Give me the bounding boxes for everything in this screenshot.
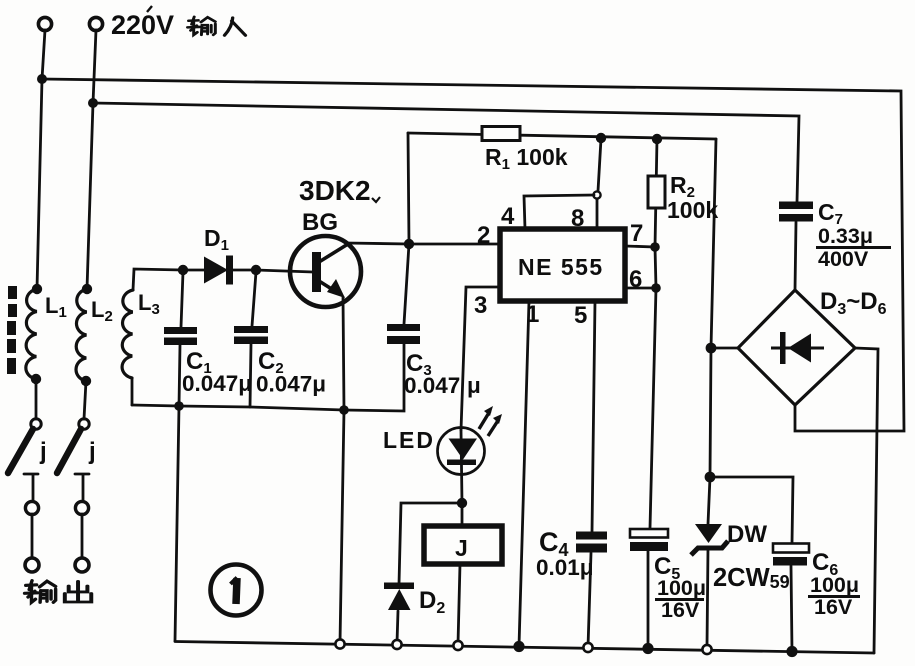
svg-text:D3~D6: D3~D6 <box>820 288 887 318</box>
svg-text:1: 1 <box>526 301 539 328</box>
R1 supply rail <box>408 133 716 139</box>
svg-text:DW: DW <box>727 521 767 548</box>
svg-text:100μ: 100μ <box>657 576 706 600</box>
wire bridge right vertex down to rail <box>855 348 878 653</box>
IC U1 NE555 <box>500 229 625 301</box>
node circle pin4/8 <box>593 191 600 198</box>
junction dot L1 top <box>32 284 42 294</box>
terminal T1 220V input left <box>38 17 51 30</box>
svg-text:100μ: 100μ <box>810 573 859 597</box>
capacitor C2 <box>234 326 268 344</box>
fraction bar C7 <box>816 246 891 249</box>
wire rail 1 AC line to bridge bottom <box>42 79 904 431</box>
switch j1 lower contact circle <box>25 501 38 514</box>
inductor L2 <box>76 289 87 381</box>
wire +V down right side <box>710 139 716 477</box>
svg-text:16V: 16V <box>661 598 700 622</box>
wire emitter down to bus <box>343 297 344 410</box>
svg-text:16V: 16V <box>814 595 853 619</box>
junction dot pin7/R2 <box>650 242 660 252</box>
svg-text:6: 6 <box>629 266 642 293</box>
diode D1 <box>188 256 251 285</box>
rail open circle D2 <box>392 640 401 649</box>
rail dot C6 <box>786 646 797 657</box>
svg-text:NE 555: NE 555 <box>518 254 604 280</box>
wire node A to C1 <box>181 272 183 327</box>
wire C6 to rail <box>791 566 792 651</box>
switch j1 pivot <box>31 419 41 429</box>
wire to output terminal 1 <box>31 514 34 558</box>
junction dot L2 bottom <box>81 376 91 386</box>
wire node C up to R1 rail <box>408 133 409 244</box>
resistor R2 <box>648 176 665 208</box>
switch j1 blade <box>8 429 33 473</box>
wire L3 top to node A <box>133 269 183 290</box>
wire pin 3 to LED <box>461 287 500 430</box>
svg-text:BG: BG <box>302 209 338 236</box>
bottom common rail <box>175 642 874 654</box>
wire stub to bridge left vertex <box>711 347 738 350</box>
ground bus wire (bottom of oscillator) <box>132 344 404 411</box>
wire junction to relay <box>461 505 464 526</box>
wire pin 6 stub <box>625 287 656 290</box>
switch j2 blade <box>57 429 81 473</box>
wire C4 to rail <box>588 553 591 647</box>
svg-text:7: 7 <box>630 220 643 247</box>
svg-text:LED: LED <box>383 427 435 453</box>
scan tick above V <box>147 6 152 12</box>
junction dot LED/relay/D2 <box>457 498 467 508</box>
transistor BG circle <box>290 236 361 307</box>
label 输入 <box>188 17 246 36</box>
wire pin 7 stub <box>625 246 655 247</box>
LED bar <box>447 460 476 466</box>
label 输出 <box>25 581 92 603</box>
switch j2 lower contact circle <box>75 501 88 514</box>
LED arrows <box>479 406 502 436</box>
junction dot bus/C1 <box>174 401 184 411</box>
switch j2 pivot <box>79 419 89 429</box>
bridge rectifier diamond <box>738 290 855 405</box>
transistor emitter lead <box>319 281 338 293</box>
svg-text:220V: 220V <box>111 10 174 40</box>
wire T2 down to L2 <box>87 30 96 289</box>
wire node C down to C3 <box>404 244 409 324</box>
wire T1 down to L1 <box>37 30 45 289</box>
wire pin 4 <box>524 195 594 229</box>
rail dot C5 <box>642 643 653 654</box>
capacitor C1 <box>164 327 197 345</box>
junction dot bus/emitter <box>339 405 349 415</box>
bridge inner diode <box>771 332 824 364</box>
capacitor C6 electrolytic <box>773 544 809 566</box>
output terminal 2 <box>75 558 89 572</box>
capacitor C7 <box>779 202 813 222</box>
svg-text:0.047μ: 0.047μ <box>182 371 252 396</box>
rail open circle DW <box>702 645 711 654</box>
junction dot L1 bottom <box>31 374 41 384</box>
rail dot pin1 <box>513 641 524 652</box>
zener DW <box>691 477 728 646</box>
rail open circle relay <box>453 641 462 650</box>
svg-text:3: 3 <box>474 292 487 319</box>
wire L1 to switch 1 <box>35 379 38 419</box>
wire node B to C2 <box>252 272 256 326</box>
inductor L1 <box>26 289 37 379</box>
transistor collector lead <box>319 244 348 262</box>
wire emitter node down to bottom rail <box>340 410 344 643</box>
switch j1 fixed contact <box>24 474 38 501</box>
wire L2 to switch 2 <box>84 381 86 419</box>
junction dot rail/R2 <box>652 134 662 144</box>
wire C7 to bridge top <box>795 222 796 290</box>
svg-text:0.047μ: 0.047μ <box>404 373 481 398</box>
svg-text:100k: 100k <box>667 197 718 223</box>
wire to output terminal 2 <box>81 514 84 558</box>
wire junction to D2 <box>399 503 462 584</box>
rail open circle C4 <box>583 643 592 652</box>
capacitor C4 <box>576 532 607 553</box>
transformer core dashes <box>7 286 17 374</box>
wire R2 string rail to C5 <box>650 139 657 528</box>
terminal T2 220V input right <box>89 17 102 30</box>
capacitor C3 <box>387 324 420 344</box>
wire node to rail <box>598 139 601 191</box>
svg-text:j: j <box>39 438 47 465</box>
wire node B to base <box>256 270 313 272</box>
junction dot node C <box>404 239 414 249</box>
wire C1 to ground bus <box>179 345 180 406</box>
junction dot bridge left <box>706 343 717 354</box>
wire LED to junction <box>461 430 462 503</box>
capacitor C5 electrolytic <box>630 529 668 551</box>
diode D2 <box>384 583 414 611</box>
junction dot pin6 <box>651 283 661 293</box>
wire C2 to ground bus <box>250 344 251 407</box>
LED circle <box>438 428 485 475</box>
fraction bar C6 <box>808 595 860 598</box>
wire pin 8 <box>596 199 599 229</box>
svg-text:0.047μ: 0.047μ <box>256 372 326 397</box>
svg-text:R1 100k: R1 100k <box>485 144 568 173</box>
svg-text:2: 2 <box>477 222 490 249</box>
wire rail 2 AC line to C7 <box>93 103 799 202</box>
wire DW junction to C6 <box>710 477 793 543</box>
resistor R1 <box>482 127 520 141</box>
LED triangle <box>449 439 478 460</box>
node A junction dot <box>178 265 188 275</box>
wire left corner down <box>175 406 179 641</box>
rail open circle emitter node <box>335 639 344 648</box>
junction dot DW branch <box>705 472 716 483</box>
svg-text:0.01μ: 0.01μ <box>536 555 594 580</box>
junction dot rail/pin8 <box>596 133 606 143</box>
svg-text:5: 5 <box>574 302 587 329</box>
svg-text:3DK2: 3DK2 <box>299 175 371 206</box>
wire collector to node C <box>346 243 409 244</box>
svg-text:4: 4 <box>501 203 515 230</box>
inductor L3 <box>122 290 133 378</box>
transistor base bar <box>312 252 321 292</box>
wire pin 5 down to C4 <box>592 301 595 532</box>
junction dot rail1 start <box>37 74 47 84</box>
fraction bar C5 <box>655 598 704 601</box>
wire L3 bottom to ground bus <box>131 378 134 405</box>
wire C5 to rail <box>647 551 650 648</box>
wire pin 1 down to rail <box>519 301 529 646</box>
relay J coil <box>424 526 502 564</box>
junction dot rail2 start <box>88 98 98 108</box>
wire D2 to rail <box>397 611 398 643</box>
svg-text:J: J <box>455 535 468 561</box>
figure number circle 1 <box>211 565 262 616</box>
svg-text:j: j <box>88 438 96 465</box>
svg-text:400V: 400V <box>818 247 869 271</box>
node B junction dot <box>251 265 261 275</box>
svg-text:0.33μ: 0.33μ <box>818 224 873 248</box>
switch j2 fixed contact <box>75 474 89 501</box>
wire relay to rail <box>458 564 460 644</box>
wire node C to pin2 <box>409 243 500 246</box>
small tick after 3DK2 <box>372 197 380 202</box>
svg-text:8: 8 <box>571 205 584 232</box>
junction dot L2 top <box>82 284 92 294</box>
output terminal 1 <box>25 558 39 572</box>
transistor emitter arrow <box>327 279 345 298</box>
